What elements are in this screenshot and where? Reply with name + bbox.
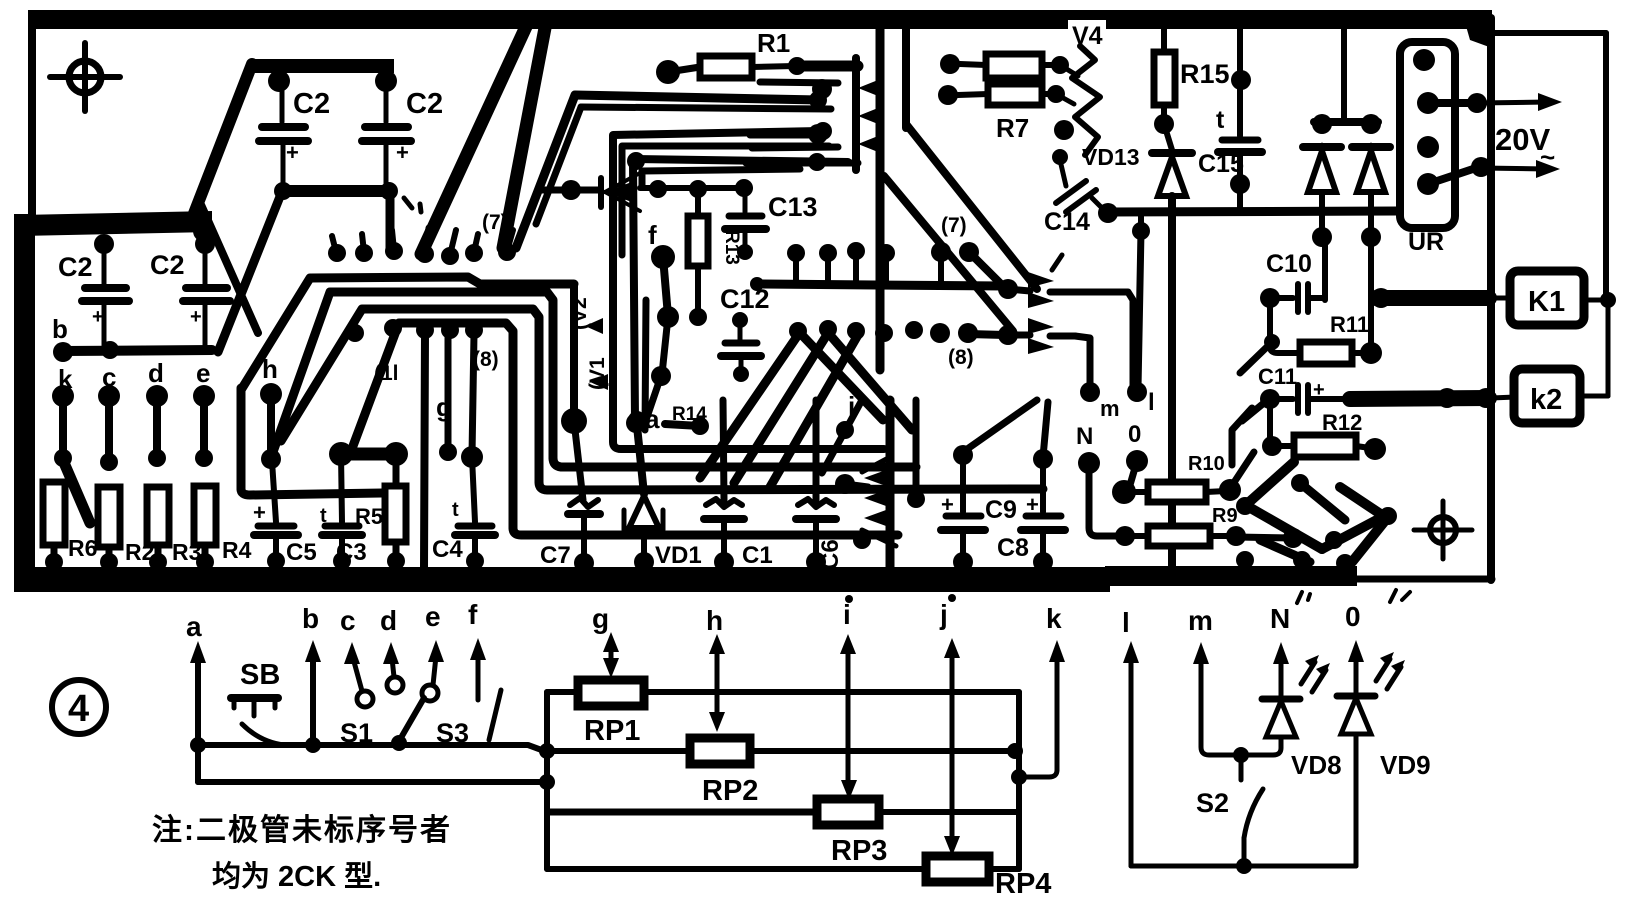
svg-text:a: a	[645, 404, 660, 434]
wire fan output row	[640, 185, 750, 191]
transistor fan V3	[835, 400, 896, 568]
node pads k c d e	[52, 385, 74, 407]
stubs down to y283	[793, 253, 799, 283]
trace T1	[241, 277, 574, 390]
svg-text:k: k	[1046, 603, 1062, 634]
svg-text:+: +	[190, 306, 202, 328]
svg-text:R5: R5	[355, 504, 383, 529]
svg-text:+: +	[92, 306, 104, 328]
transistor fan B	[998, 325, 1018, 345]
resistor R6	[43, 482, 65, 545]
svg-text:V4: V4	[1072, 22, 1103, 50]
fiducial crosshair top-left	[69, 61, 101, 93]
resistor R4	[194, 486, 216, 545]
pad row 1 right	[787, 244, 805, 262]
bus line 2	[513, 528, 898, 535]
svg-text:VD1: VD1	[655, 542, 702, 569]
wire diagonal to fan right	[906, 124, 1037, 289]
zigzag cluster	[1231, 452, 1254, 487]
svg-text:R10: R10	[1188, 453, 1225, 475]
capacitor C12	[720, 284, 770, 382]
resistor R9	[1125, 533, 1148, 539]
net outline	[547, 689, 578, 695]
svg-text:RP3: RP3	[831, 835, 887, 867]
svg-text:h: h	[706, 605, 723, 636]
capacitor C3	[320, 454, 367, 570]
wire top bar of trapezoid	[252, 59, 394, 73]
wire vertical x390 down from trapezoid	[386, 197, 395, 252]
wire vertical x1325	[1322, 237, 1328, 300]
capacitor C9	[941, 400, 1037, 572]
svg-text:t: t	[452, 499, 459, 521]
svg-text:C4: C4	[432, 536, 463, 563]
svg-text:RP2: RP2	[702, 775, 758, 807]
node f pad	[651, 245, 675, 269]
svg-text:C13: C13	[768, 192, 818, 222]
svg-text:(8): (8)	[473, 348, 499, 371]
capacitor C7	[540, 421, 600, 573]
capacitor C5	[253, 461, 317, 570]
svg-text:C2: C2	[406, 88, 443, 120]
pad row 1	[328, 244, 346, 262]
SECTION: bottom right schematic	[1122, 590, 1431, 874]
svg-text:C9: C9	[985, 496, 1017, 524]
svg-text:i: i	[843, 599, 851, 630]
wire big diagonal left	[193, 64, 252, 216]
board left edge thin upper	[28, 10, 36, 220]
wire arrow 20V upper	[1428, 99, 1477, 107]
wire L from x241 to R5	[237, 388, 246, 489]
wire vertical x613	[613, 140, 884, 449]
wire arrow 20V lower	[1428, 167, 1479, 184]
node pad C14 out	[1098, 203, 1118, 223]
potentiometer RP1	[578, 680, 644, 706]
svg-text:0: 0	[1345, 601, 1361, 632]
connector UR outline	[1400, 42, 1455, 228]
svg-text:g: g	[592, 603, 609, 634]
wire b bus	[63, 350, 212, 351]
wire diagonal A from top bar	[421, 18, 530, 254]
capacitor C6	[796, 400, 844, 572]
wire g column	[424, 334, 425, 568]
capacitor C1	[704, 400, 773, 572]
wire stubs down to resistors	[59, 396, 67, 458]
wire y82	[760, 82, 838, 83]
wire diagonal from trapezoid to b-bus	[218, 194, 281, 352]
SECTION: center bottom components	[540, 242, 1005, 573]
tick marks	[404, 198, 412, 208]
relay K2	[1491, 397, 1516, 398]
wire bar y66	[788, 57, 806, 75]
wire fan A output to l pad	[1075, 292, 1133, 388]
svg-text:0: 0	[1128, 421, 1141, 448]
bus line 1	[539, 482, 1043, 490]
board bottom thick bar	[20, 567, 1110, 592]
SECTION: nested bundle traces	[241, 211, 1043, 535]
resistor R7b	[938, 85, 958, 105]
svg-text:f: f	[468, 599, 478, 630]
svg-text:R12: R12	[1322, 410, 1362, 435]
svg-text:b: b	[52, 314, 68, 344]
svg-text:N: N	[1270, 603, 1290, 634]
capacitor C2 (left col 1)	[58, 234, 129, 347]
svg-text:l: l	[1122, 607, 1130, 638]
capacitor C2 (upper left)	[259, 84, 330, 188]
trace T2	[273, 292, 553, 458]
svg-text:4: 4	[68, 688, 89, 730]
wire diagonal L2a	[198, 198, 258, 333]
potentiometer RP4	[547, 866, 926, 872]
SECTION: C9 C8	[941, 400, 1065, 572]
board bottom thin right	[1352, 576, 1492, 583]
potentiometer RP2	[547, 748, 690, 754]
wire bus 745	[198, 745, 547, 752]
resistor R1	[656, 60, 680, 84]
nested trace L4 y146	[622, 146, 829, 152]
wire short column x447	[445, 334, 452, 450]
svg-text:+: +	[396, 140, 409, 165]
wire vertical x906	[902, 24, 910, 128]
svg-text:+: +	[286, 140, 299, 165]
SECTION: bottom schematic	[52, 599, 547, 893]
resistor R5	[385, 486, 406, 542]
capacitor C14 tilted	[1044, 149, 1104, 236]
board left edge thick lower	[14, 214, 35, 592]
svg-text:j: j	[939, 599, 948, 630]
pad row 2 right	[789, 322, 807, 340]
board step bar	[20, 211, 212, 236]
node h pad	[260, 383, 282, 405]
svg-text:C11: C11	[1258, 364, 1297, 389]
SECTION: UR connector and 20V	[1400, 33, 1606, 300]
svg-text:R1: R1	[757, 28, 790, 58]
corner block top-right	[1462, 12, 1492, 48]
SECTION: top-left C2 trapezoid group	[193, 59, 443, 352]
SECTION: R15 VD13 C15	[1152, 26, 1390, 568]
svg-text:VD9: VD9	[1380, 750, 1431, 780]
wire top link to outer loop	[1491, 30, 1606, 36]
svg-text:C1: C1	[742, 542, 773, 569]
svg-text:C8: C8	[997, 534, 1029, 562]
nested trace L5 y159	[627, 152, 645, 170]
SECTION: R7 V4 area	[938, 20, 1407, 236]
resistor R7a	[940, 54, 960, 74]
wire long L2 y107	[581, 107, 831, 109]
svg-text:m: m	[1100, 396, 1120, 421]
potentiometer RP3	[550, 809, 817, 816]
relay K1	[1491, 296, 1512, 301]
svg-text:R9: R9	[1212, 505, 1238, 527]
svg-text:e: e	[425, 601, 441, 632]
SECTION: top middle R1 and comb	[516, 24, 1037, 370]
resistor R10	[1124, 489, 1148, 495]
svg-text:VD13: VD13	[1082, 144, 1140, 170]
wire feed to diode fan	[542, 187, 600, 194]
node pads N O	[1078, 452, 1100, 474]
wire K1 thick trace	[1371, 288, 1391, 308]
pad pair above C3/R5	[329, 442, 353, 466]
diode VD1	[624, 426, 702, 572]
board top edge	[28, 10, 1492, 29]
pad row 2	[346, 324, 364, 342]
svg-text:C7: C7	[540, 542, 571, 569]
svg-text:~: ~	[1540, 142, 1555, 172]
svg-text:a: a	[186, 611, 202, 642]
circled 4	[52, 680, 106, 734]
hatch diagonals center	[700, 335, 798, 478]
wire bottom	[1131, 864, 1356, 869]
wire bus 782	[198, 779, 547, 785]
bridge diode pair	[1303, 26, 1390, 247]
transistor V4 zigzag	[1068, 20, 1106, 47]
svg-text:d: d	[148, 358, 164, 388]
board bottom bar mid	[1105, 566, 1357, 586]
SECTION: right bottom R10 R9 and K traces	[1089, 452, 1397, 572]
wire fan B output to m pad	[1075, 336, 1090, 390]
comb vertical	[852, 58, 860, 170]
svg-text:R11: R11	[1330, 312, 1369, 337]
transistor arrow small 2	[590, 374, 608, 390]
wire lower bar of trapezoid	[276, 185, 394, 197]
trace T3	[281, 309, 539, 482]
svg-text:VD8: VD8	[1291, 750, 1342, 780]
svg-text:C10: C10	[1266, 250, 1312, 278]
svg-text:b: b	[302, 603, 319, 634]
svg-text:f: f	[648, 220, 657, 250]
wire thick y283	[757, 284, 1005, 286]
svg-text:C2: C2	[293, 88, 330, 120]
wire vertical x916	[913, 400, 920, 497]
resistor R3	[147, 487, 169, 545]
diode fan V2	[601, 173, 640, 211]
svg-text:R6: R6	[68, 535, 97, 561]
transistor fan A	[998, 279, 1018, 299]
svg-text:k2: k2	[1530, 384, 1562, 416]
SECTION: K1 K2 relays	[1491, 271, 1616, 423]
wire N column to R9	[1089, 463, 1120, 536]
wire diagonal 2 to fan right	[884, 176, 1013, 331]
capacitor C15	[1198, 26, 1262, 211]
wire long L1 y95	[516, 95, 820, 248]
LED arrows VD8	[1301, 662, 1315, 684]
transistor arrow small	[585, 318, 603, 334]
wire C7 column	[570, 284, 578, 419]
capacitor C8	[997, 402, 1065, 572]
wire O column to R10	[1122, 461, 1137, 492]
wire slanted blob near R6	[62, 458, 90, 523]
SECTION: RP network	[539, 594, 1065, 900]
SECTION: right transistor fans	[930, 214, 1155, 474]
wire vertical x884	[876, 24, 885, 370]
svg-text:+: +	[253, 500, 266, 525]
wire vertical x633	[633, 164, 635, 420]
svg-text:m: m	[1188, 605, 1213, 636]
board right edge	[1487, 18, 1495, 580]
svg-text:S2: S2	[1196, 788, 1229, 818]
wire vertical x646	[645, 300, 646, 430]
svg-text:R7: R7	[996, 113, 1029, 143]
svg-text:注:二极管未标序号者: 注:二极管未标序号者	[152, 813, 452, 847]
resistor R2	[98, 487, 120, 547]
LED arrows VD9	[1376, 659, 1390, 681]
svg-text:l: l	[1148, 389, 1155, 416]
resistor R15	[1161, 26, 1167, 52]
wire y152	[752, 147, 838, 148]
svg-text:RP4: RP4	[995, 868, 1051, 900]
svg-text:SB: SB	[240, 659, 280, 691]
node pad	[375, 70, 397, 92]
svg-text:(7): (7)	[941, 214, 967, 237]
trace T4	[353, 323, 513, 528]
wire i diagonal	[822, 400, 862, 473]
SECTION: board frame	[14, 10, 1492, 592]
capacitor C4	[432, 334, 495, 570]
wire trace y211	[1108, 211, 1407, 212]
SECTION: left C2 pair and b/k/c/d/e	[43, 234, 252, 571]
svg-text:RP1: RP1	[584, 715, 640, 747]
SECTION: h C5 C3 R5 C4 g group	[241, 334, 495, 570]
wire resistor bottom stubs	[51, 545, 58, 562]
svg-text:C3: C3	[336, 539, 367, 566]
svg-text:C2: C2	[58, 252, 93, 282]
pad stubs up	[332, 236, 336, 252]
SECTION: l m column wires	[1132, 213, 1150, 388]
wire vertical below left diagonal	[193, 220, 215, 242]
svg-text:d: d	[380, 605, 397, 636]
diode VD13	[1152, 124, 1192, 568]
svg-text:R15: R15	[1180, 59, 1230, 89]
wire vertical x622	[619, 150, 626, 255]
capacitor C13	[725, 192, 818, 260]
SECTION: center column traces	[421, 18, 884, 449]
wire diagonal B from top bar	[503, 28, 545, 248]
capacitor C2 (upper right)	[362, 84, 443, 188]
nested trace L6 y171	[642, 169, 800, 186]
svg-text:UR: UR	[1408, 228, 1444, 256]
svg-text:C6: C6	[817, 539, 844, 570]
svg-text:c: c	[340, 605, 356, 636]
svg-text:C5: C5	[286, 539, 317, 566]
node pad	[268, 70, 290, 92]
svg-text:t: t	[1216, 106, 1225, 134]
bus y467	[553, 458, 916, 467]
SECTION: C10 C11 R11 R12	[1232, 237, 1496, 465]
capacitor C2 (left col 2)	[150, 234, 230, 347]
svg-text:R4: R4	[222, 537, 252, 563]
svg-text:均为 2CK 型.: 均为 2CK 型.	[212, 860, 381, 893]
wire feed diagonals left	[1240, 344, 1270, 373]
svg-text:N: N	[1076, 423, 1093, 450]
SECTION: registration marks	[50, 43, 1472, 559]
wire y135	[750, 132, 812, 139]
nested trace L3 y135	[613, 131, 820, 142]
svg-text:(8): (8)	[948, 346, 974, 369]
svg-text:e: e	[196, 358, 210, 388]
svg-text:C14: C14	[1044, 208, 1090, 236]
wire K2 thick trace	[1308, 396, 1352, 402]
svg-text:K1: K1	[1528, 286, 1565, 318]
comb teeth	[858, 80, 878, 96]
resistor R13 vertical	[688, 216, 708, 266]
wire y163	[746, 160, 858, 167]
fiducial crosshair bottom-right	[1430, 517, 1456, 543]
svg-text:C2: C2	[150, 250, 185, 280]
